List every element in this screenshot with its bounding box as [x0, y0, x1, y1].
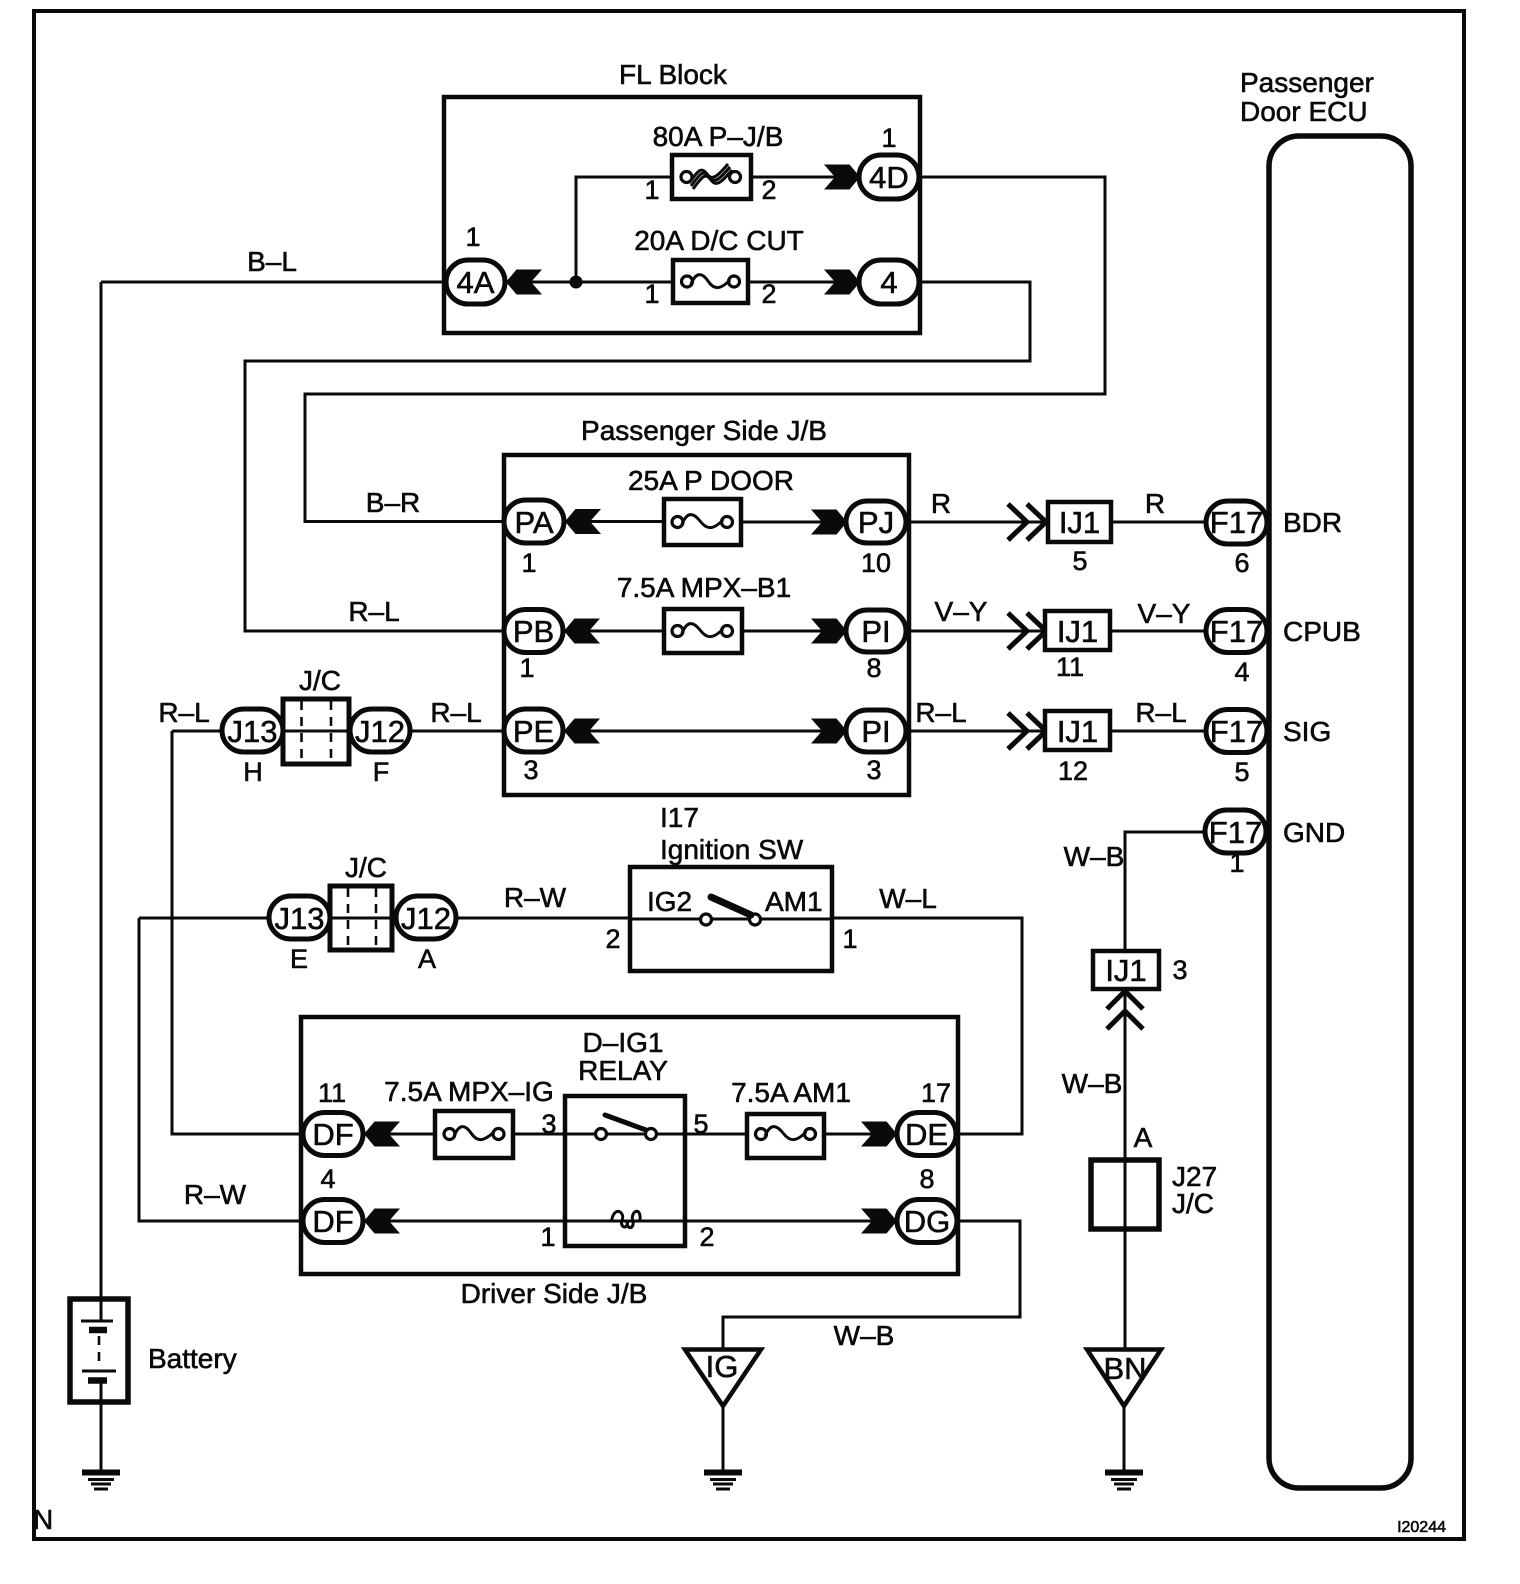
wire battery to ground: [100, 1402, 103, 1470]
connector 4: [859, 260, 919, 304]
row GND wire from F17 down: [1064, 832, 1205, 951]
svg-text:R–W: R–W: [184, 1179, 247, 1210]
wire PI to F17 (R-L): [906, 697, 1206, 731]
junction connector J/C (SIG row): [283, 665, 349, 764]
wire J13 H down to DF 11: [172, 731, 303, 1134]
svg-text:1: 1: [1229, 848, 1244, 878]
fuse 7.5A MPX-B1: [664, 609, 742, 653]
wire 80A fuse to 4D: [751, 176, 860, 179]
svg-text:3: 3: [866, 755, 881, 785]
svg-text:80A P–J/B: 80A P–J/B: [653, 121, 784, 152]
svg-text:1: 1: [540, 1222, 555, 1252]
svg-text:BN: BN: [1103, 1351, 1146, 1386]
junction IJ1 pin 3: [1093, 951, 1188, 989]
connector J13 E: [269, 896, 330, 974]
fuse 7.5A AM1: [731, 1077, 851, 1158]
wire relay pin 5 to fuse AM1: [685, 1109, 747, 1139]
wire PB to fuse: [564, 630, 664, 633]
svg-text:IG2: IG2: [647, 886, 692, 917]
svg-text:J12: J12: [355, 714, 405, 749]
FL Block box: [444, 59, 920, 333]
Passenger Side J/B box: [504, 415, 909, 795]
wire 20A fuse to 4: [748, 281, 860, 284]
svg-text:J12: J12: [401, 901, 451, 936]
svg-text:DF: DF: [312, 1204, 353, 1239]
connector DG pin 8: [897, 1164, 957, 1243]
chevrons up: [1107, 991, 1143, 1029]
svg-text:3: 3: [523, 755, 538, 785]
svg-text:6: 6: [1234, 548, 1249, 578]
wire PI to F17 (V-Y): [906, 596, 1206, 631]
Driver Side J/B box: [301, 1017, 958, 1309]
connector DF pin 11: [303, 1078, 363, 1156]
wire J27 to BN: [1124, 1229, 1127, 1351]
svg-text:PA: PA: [514, 505, 553, 540]
connector 4A pin 1: [446, 222, 505, 304]
svg-text:J/C: J/C: [299, 665, 341, 696]
wire 4D to PA (B-R): [305, 177, 1105, 522]
svg-text:R: R: [931, 488, 951, 519]
svg-text:B–R: B–R: [366, 487, 420, 518]
connector J12 A: [396, 896, 456, 974]
svg-text:Ignition SW: Ignition SW: [660, 834, 804, 865]
chevrons row BDR: [1008, 504, 1046, 540]
arrow into DG: [861, 1209, 897, 1234]
connector J12 F: [350, 709, 410, 787]
connector 4D pin 1: [859, 123, 919, 199]
svg-text:R–L: R–L: [430, 697, 481, 728]
svg-text:J/C: J/C: [1172, 1188, 1214, 1219]
wire PJ to F17 (R): [906, 488, 1206, 522]
row BDR: connector PA pin 1: [504, 500, 564, 578]
svg-text:Battery: Battery: [148, 1343, 237, 1374]
svg-text:1: 1: [842, 924, 857, 954]
battery: [70, 1299, 237, 1402]
arrow into DE: [861, 1122, 897, 1147]
svg-text:R–L: R–L: [158, 697, 209, 728]
connector F17 pin 6 BDR: [1206, 501, 1342, 578]
arrow into 4A: [506, 270, 542, 295]
Passenger Door ECU: [1240, 67, 1411, 1488]
svg-text:E: E: [290, 944, 308, 974]
wire left branch to J13 E and down to DF 4: [139, 918, 630, 1221]
wire AM1 to DE (W-L): [832, 883, 1022, 1134]
arrow into DF 4: [364, 1209, 400, 1234]
svg-text:20A D/C CUT: 20A D/C CUT: [634, 225, 804, 256]
svg-text:3: 3: [541, 1109, 556, 1139]
fuse 25A P DOOR: [628, 465, 794, 545]
svg-text:FL Block: FL Block: [619, 59, 728, 90]
wire DF to fuse MPX-IG: [364, 1133, 435, 1136]
wire fuse to relay pin 3: [513, 1109, 565, 1139]
ground point BN: [1087, 1350, 1161, 1407]
svg-text:IJ1: IJ1: [1105, 953, 1146, 988]
wire DF 4 through relay coil to DG: [364, 1221, 897, 1252]
svg-text:BDR: BDR: [1283, 507, 1342, 538]
svg-text:11: 11: [318, 1078, 346, 1108]
node junction dot: [570, 276, 583, 289]
chevrons row CPUB: [1008, 613, 1046, 649]
svg-text:Driver Side J/B: Driver Side J/B: [461, 1278, 648, 1309]
svg-text:F: F: [373, 757, 390, 787]
svg-text:J13: J13: [228, 714, 278, 749]
arrow into 4D: [824, 165, 860, 190]
arrow into PE: [564, 719, 600, 744]
svg-text:RELAY: RELAY: [578, 1055, 668, 1086]
connector J13 H: [222, 709, 283, 787]
svg-text:R: R: [1145, 488, 1165, 519]
svg-text:PB: PB: [513, 614, 554, 649]
svg-text:4: 4: [320, 1164, 335, 1194]
ground symbol battery: [82, 1473, 120, 1490]
svg-text:8: 8: [866, 653, 881, 683]
arrow into PI 3: [811, 719, 847, 744]
svg-text:V–Y: V–Y: [935, 596, 988, 627]
svg-text:W–B: W–B: [1064, 841, 1125, 872]
connector F17 pin 1 GND: [1205, 810, 1345, 878]
svg-text:AM1: AM1: [765, 886, 823, 917]
svg-text:F17: F17: [1209, 815, 1262, 850]
wire PA to fuse: [565, 520, 664, 523]
svg-text:5: 5: [1234, 757, 1249, 787]
connector PJ pin 10: [846, 501, 906, 578]
junction connector J27 J/C: [1091, 1160, 1217, 1229]
wire BN to ground: [1123, 1406, 1126, 1470]
svg-text:F17: F17: [1210, 614, 1263, 649]
connector DF pin 4: [303, 1164, 363, 1243]
wire IG to ground: [722, 1406, 725, 1470]
svg-text:7.5A MPX–B1: 7.5A MPX–B1: [617, 572, 791, 603]
svg-text:1: 1: [521, 548, 536, 578]
svg-text:H: H: [243, 757, 263, 787]
connector DE pin 17: [897, 1078, 956, 1156]
relay coil: [612, 1211, 641, 1227]
arrow into PI: [811, 619, 847, 644]
svg-text:F17: F17: [1210, 714, 1263, 749]
svg-text:IJ1: IJ1: [1059, 505, 1100, 540]
svg-text:DF: DF: [312, 1117, 353, 1152]
svg-text:3: 3: [1172, 955, 1187, 985]
svg-text:1: 1: [644, 279, 659, 309]
svg-text:V–Y: V–Y: [1138, 598, 1191, 629]
svg-text:1: 1: [465, 222, 480, 252]
svg-text:11: 11: [1056, 652, 1084, 682]
svg-text:5: 5: [1072, 546, 1087, 576]
wire 4A to 20A fuse: [506, 281, 673, 284]
svg-text:2: 2: [761, 175, 776, 205]
svg-text:4D: 4D: [869, 160, 909, 195]
svg-text:2: 2: [605, 924, 620, 954]
fuse 80A P-J/B: [644, 121, 783, 205]
svg-text:PJ: PJ: [858, 505, 894, 540]
ground symbol IG: [704, 1473, 742, 1490]
svg-text:1: 1: [644, 175, 659, 205]
connector PB pin 1: [504, 610, 563, 684]
svg-text:I20244: I20244: [1397, 1519, 1446, 1536]
svg-text:7.5A MPX–IG: 7.5A MPX–IG: [384, 1076, 554, 1107]
svg-text:GND: GND: [1283, 817, 1345, 848]
svg-text:J/C: J/C: [345, 852, 387, 883]
arrow into 4: [824, 270, 860, 295]
svg-text:2: 2: [699, 1222, 714, 1252]
svg-text:10: 10: [861, 548, 891, 578]
arrow into PJ: [811, 510, 847, 535]
junction IJ1 pin 5: [1048, 502, 1111, 576]
svg-text:R–L: R–L: [1135, 697, 1186, 728]
arrow into DF 11: [364, 1122, 400, 1147]
svg-text:IG: IG: [706, 1349, 739, 1384]
junction IJ1 pin 12: [1045, 711, 1110, 786]
svg-text:Passenger Side J/B: Passenger Side J/B: [581, 415, 827, 446]
svg-text:IJ1: IJ1: [1057, 714, 1098, 749]
wire DG to IG ground (W-B): [723, 1221, 1020, 1351]
row SIG left wire R-L through J/C: [158, 697, 504, 731]
svg-text:12: 12: [1058, 756, 1088, 786]
wire junction riser to 80A fuse: [576, 177, 672, 282]
svg-text:7.5A AM1: 7.5A AM1: [731, 1077, 851, 1108]
svg-text:N: N: [33, 1504, 53, 1535]
svg-text:I17: I17: [660, 802, 699, 833]
svg-text:CPUB: CPUB: [1283, 616, 1361, 647]
svg-text:1: 1: [519, 653, 534, 683]
svg-text:IJ1: IJ1: [1057, 614, 1098, 649]
svg-text:4: 4: [880, 265, 897, 300]
connector F17 pin 4 CPUB: [1206, 610, 1361, 688]
junction connector J/C (ignition row): [330, 852, 392, 950]
ignition switch I17: [605, 802, 857, 971]
svg-text:Door ECU: Door ECU: [1240, 96, 1368, 127]
relay D-IG1: [565, 1027, 685, 1246]
svg-text:PE: PE: [513, 714, 554, 749]
wire B-L from battery riser to 4A: [101, 246, 446, 282]
wire PE to PI: [564, 730, 847, 733]
chevrons row SIG: [1008, 713, 1046, 749]
connector F17 pin 5 SIG: [1206, 710, 1331, 788]
svg-text:25A P DOOR: 25A P DOOR: [628, 465, 794, 496]
svg-text:R–L: R–L: [915, 697, 966, 728]
connector PI pin 3: [846, 710, 906, 785]
svg-text:F17: F17: [1210, 505, 1263, 540]
svg-text:W–B: W–B: [1062, 1068, 1123, 1099]
svg-text:Passenger: Passenger: [1240, 67, 1374, 98]
svg-text:R–L: R–L: [348, 596, 399, 627]
svg-text:J13: J13: [275, 901, 325, 936]
svg-text:W–L: W–L: [879, 883, 937, 914]
svg-text:DE: DE: [905, 1117, 948, 1152]
svg-text:1: 1: [881, 123, 896, 153]
junction IJ1 pin 11: [1045, 611, 1110, 682]
arrow into PA: [565, 509, 601, 534]
svg-text:W–B: W–B: [834, 1320, 895, 1351]
fuse 20A D/C CUT: [634, 225, 804, 309]
svg-text:4A: 4A: [457, 265, 495, 300]
svg-text:A: A: [1134, 1122, 1153, 1153]
wire fuse to PI: [742, 630, 847, 633]
svg-text:4: 4: [1234, 657, 1249, 687]
svg-text:PI: PI: [861, 714, 890, 749]
connector PE pin 3: [504, 709, 563, 785]
fuse 7.5A MPX-IG: [384, 1076, 554, 1158]
svg-text:R–W: R–W: [504, 882, 567, 913]
wire IJ1 3 to J27: [1124, 989, 1127, 1160]
arrow into PB: [564, 619, 600, 644]
wire fuse to PJ: [741, 521, 847, 524]
ground symbol BN: [1105, 1473, 1143, 1490]
ground point IG: [685, 1349, 761, 1406]
svg-text:DG: DG: [904, 1204, 951, 1239]
wire fuse to DE: [824, 1133, 897, 1136]
relay switch contacts: [565, 1115, 685, 1140]
svg-text:A: A: [418, 944, 436, 974]
svg-text:D–IG1: D–IG1: [583, 1027, 664, 1058]
svg-text:PI: PI: [861, 614, 890, 649]
svg-text:B–L: B–L: [247, 246, 297, 277]
svg-text:8: 8: [919, 1164, 934, 1194]
svg-text:SIG: SIG: [1283, 716, 1331, 747]
svg-text:17: 17: [921, 1078, 951, 1108]
wire 4 to PB (R-L): [245, 282, 1030, 631]
connector PI pin 8: [846, 610, 906, 683]
wire battery riser: [100, 282, 103, 1299]
